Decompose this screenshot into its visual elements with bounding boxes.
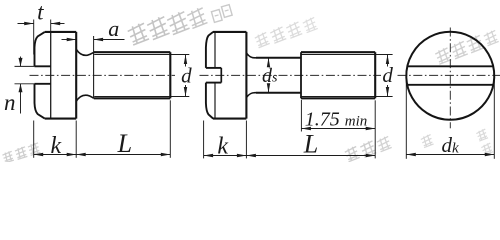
svg-text:L: L xyxy=(303,129,318,158)
svg-text:n: n xyxy=(4,90,16,115)
svg-text:d: d xyxy=(181,64,192,88)
svg-text:k: k xyxy=(50,133,61,159)
svg-text:k: k xyxy=(217,134,228,160)
svg-text:t: t xyxy=(37,0,44,25)
svg-text:d: d xyxy=(382,63,393,87)
svg-text:a: a xyxy=(108,16,119,41)
svg-text:L: L xyxy=(117,129,132,158)
